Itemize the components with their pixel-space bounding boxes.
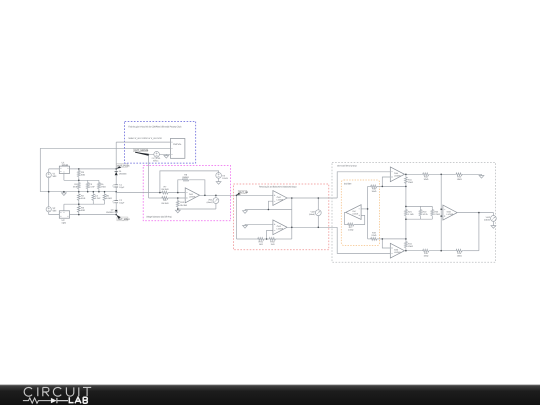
resistor R8 feedback (178, 173, 205, 195)
wire CMP pin2 feed (40, 147, 170, 149)
svg-text:twin-t notch filter w/ op-amps: twin-t notch filter w/ op-amps (337, 165, 357, 168)
svg-text:RS: RS (81, 171, 85, 174)
svg-text:OUT_SIGNAL: OUT_SIGNAL (134, 149, 149, 152)
wire top loop left vertical (39, 148, 41, 191)
annotation box red (233, 184, 328, 250)
svg-text:RG1: RG1 (259, 241, 264, 244)
svg-text:C1: C1 (119, 183, 123, 186)
svg-text:10.2k: 10.2k (423, 213, 429, 216)
svg-text:R9: R9 (164, 199, 168, 202)
svg-text:10kΩ: 10kΩ (423, 178, 428, 181)
wire OA7 plus input to spine (361, 208, 368, 210)
footer bar (0, 385, 540, 405)
svg-text:Find the gain A=Vout/Vin for C: Find the gain A=Vout/Vin for COMPlete Di… (128, 125, 182, 128)
caption gray box (337, 165, 357, 168)
svg-text:50Ω: 50Ω (81, 209, 85, 212)
svg-text:1kΩ: 1kΩ (259, 243, 263, 246)
svg-text:C2: C2 (119, 199, 123, 202)
svg-text:GEN=a: GEN=a (153, 160, 159, 163)
resistor R5 ladder (103, 192, 112, 205)
svg-text:0.1kΩ: 0.1kΩ (106, 197, 112, 200)
wire mid rail vertical (440, 174, 442, 250)
wire output tap down (478, 213, 480, 251)
svg-text:LM348: LM348 (189, 196, 196, 199)
svg-text:10µF: 10µF (119, 186, 125, 189)
svg-text:95.3kΩ: 95.3kΩ (180, 204, 187, 207)
annotation box orange (341, 180, 379, 246)
svg-text:LM348: LM348 (352, 212, 358, 215)
wire input1 riser (337, 172, 390, 198)
svg-text:95.3kΩ: 95.3kΩ (162, 202, 169, 205)
svg-text:R2: R2 (81, 194, 85, 197)
svg-text:LM348: LM348 (277, 198, 284, 201)
svg-text:50Ω: 50Ω (81, 174, 85, 177)
transformer U2 (59, 204, 79, 225)
svg-text:1N4448: 1N4448 (106, 211, 114, 214)
CircuitLab logo wordmark (23, 387, 91, 403)
svg-text:SIN: SIN (53, 210, 57, 213)
svg-text:LM348: LM348 (447, 213, 454, 216)
svg-text:10kΩ: 10kΩ (457, 255, 462, 258)
annotation box gray (332, 163, 496, 263)
resistor R15 (422, 249, 455, 257)
svg-text:R8: R8 (184, 173, 188, 176)
ground top right (479, 174, 484, 178)
op-amp OA3 (273, 220, 287, 235)
capacitor C4 ladder (92, 192, 101, 205)
svg-text:V2: V2 (53, 207, 57, 210)
svg-text:CMPVAL: CMPVAL (173, 143, 183, 146)
junction dots red box (236, 195, 319, 240)
wire row3 bottom (64, 203, 105, 205)
svg-text:Removing DC and Balanced-to-Un: Removing DC and Balanced-to-Unbalanced O… (259, 186, 296, 189)
caption magenta box (146, 215, 172, 218)
svg-text:2.2kΩ: 2.2kΩ (434, 213, 440, 216)
wire OA3 plus feed (245, 223, 273, 225)
op-amp OA5 (390, 243, 404, 258)
svg-text:V3: V3 (222, 174, 225, 177)
wire op-amp minus feed (116, 191, 161, 194)
ground mid rail (62, 192, 67, 196)
wire filter spine (367, 186, 369, 239)
voltmeter VM1 (207, 195, 219, 209)
svg-text:C3: C3 (89, 183, 93, 186)
wire OA2 minus feedback (268, 201, 273, 209)
svg-text:97kΩ: 97kΩ (371, 234, 376, 237)
wire OA2 output (287, 197, 337, 199)
caption red box (259, 186, 296, 189)
wire input rail (40, 191, 116, 193)
wire output stack top (115, 142, 117, 172)
svg-text:Select V_src=1.0mV or V_src=1m: Select V_src=1.0mV or V_src=1mV (128, 137, 162, 140)
voltmeter VM2 (309, 198, 321, 227)
annotation box magenta (143, 166, 230, 221)
resistor R19 (368, 232, 383, 241)
svg-text:RG2: RG2 (270, 241, 275, 244)
svg-text:opto: opto (62, 222, 67, 225)
diode D1 (115, 170, 128, 185)
op-amp OA6 (441, 205, 457, 220)
svg-text:XFMR: XFMR (62, 164, 69, 167)
resistor R16 (455, 249, 479, 257)
wire OA5 output (405, 250, 422, 252)
svg-text:R10: R10 (180, 201, 185, 204)
svg-text:R6: R6 (101, 183, 105, 186)
node OUT_MINUS flag (116, 215, 130, 221)
svg-text:1.5kΩ: 1.5kΩ (348, 228, 354, 231)
svg-text:10kΩ: 10kΩ (423, 255, 428, 258)
resistor R13 (455, 173, 481, 181)
voltage source V1 (46, 169, 59, 207)
wire stack mid (115, 192, 117, 201)
svg-text:LM348: LM348 (394, 175, 401, 178)
svg-text:2.2nF: 2.2nF (95, 197, 101, 200)
op-amp OA2 (273, 191, 287, 206)
wire network top rail (406, 205, 432, 207)
resistor RS2 (77, 204, 85, 214)
junction dots gray box (367, 174, 480, 252)
svg-text:RS: RS (81, 207, 85, 210)
svg-text:LM348: LM348 (394, 251, 401, 254)
wire OA4 feedback rail (382, 185, 406, 187)
svg-text:OUT_SB: OUT_SB (239, 191, 249, 194)
wire bottom output row (79, 214, 116, 216)
note text line 1 (128, 125, 182, 128)
wire input2 dropper (337, 227, 390, 253)
resistor R18 (368, 185, 383, 193)
wire spine to network (405, 186, 407, 239)
wire op-amp plus feed (149, 197, 161, 199)
ground at VSIG (164, 154, 169, 158)
logo diode (51, 398, 57, 403)
resistor R14 (405, 239, 414, 251)
svg-text:V1: V1 (53, 172, 57, 175)
svg-text:10mV: 10mV (222, 177, 228, 180)
resistor R21 (405, 206, 414, 219)
wire OA5 plus loop (382, 239, 390, 248)
resistor R2 ladder (77, 192, 86, 205)
annotation box blue (125, 121, 196, 163)
svg-text:1kΩ: 1kΩ (271, 243, 275, 246)
svg-text:3rd filter: 3rd filter (344, 182, 352, 185)
wire top output row (79, 168, 116, 170)
caption orange box (344, 182, 352, 185)
svg-text:OUT_MINU: OUT_MINU (118, 218, 130, 221)
resistor R23 (431, 206, 440, 219)
svg-text:10kΩ: 10kΩ (457, 178, 462, 181)
wire OA6 output (457, 213, 493, 216)
resistor RG1 (237, 238, 265, 247)
wire OA3 output (287, 226, 337, 228)
voltage source V3 (216, 173, 229, 181)
resistor R7 (161, 186, 185, 194)
ground at V3 (216, 180, 221, 184)
resistor R1 ladder (73, 180, 80, 191)
diode D2 (106, 209, 118, 215)
junction dots left section (48, 168, 117, 215)
resistor R12 (422, 173, 455, 181)
wire gain chain left drop (236, 195, 238, 239)
svg-text:953kΩ: 953kΩ (183, 176, 190, 179)
resistor RG2 (265, 238, 292, 247)
resistor R6 ladder (98, 180, 107, 191)
wire feedback rail upper (245, 209, 292, 211)
svg-text:SIN: SIN (53, 175, 57, 178)
svg-text:C4: C4 (95, 194, 99, 197)
comparator block U3 CMPVAL (170, 139, 185, 159)
svg-text:49.9: 49.9 (81, 197, 86, 200)
ground at R10 (175, 209, 180, 213)
wire VM1 return (178, 208, 216, 210)
wire OA3 minus tap (267, 230, 273, 239)
wire OA2 feedback drop (291, 198, 293, 239)
node OUT_SIGNAL flag (133, 149, 149, 156)
svg-text:15kΩ: 15kΩ (371, 190, 376, 193)
svg-text:10kΩ: 10kΩ (408, 245, 413, 248)
wire OA4 output (405, 173, 422, 175)
junction dots magenta box (159, 192, 217, 210)
wire network bottom rail (406, 218, 432, 220)
resistor RS1 (77, 169, 85, 180)
ground at VM3 (491, 224, 496, 228)
svg-text:Voltage Subtractor (aka Diff-A: Voltage Subtractor (aka Diff-Amp) (146, 215, 172, 218)
svg-text:10kΩ: 10kΩ (408, 181, 413, 184)
voltage source V2 (46, 207, 59, 215)
node OUT_SUB flag (237, 190, 249, 195)
wire row2 top (64, 179, 99, 181)
resistor R22 (419, 206, 429, 219)
wire bias loop (160, 171, 219, 193)
ground upper red box (243, 210, 248, 214)
resistor R9 (161, 197, 185, 205)
ground lower red box (243, 224, 248, 228)
wire VSIG drop (148, 154, 150, 198)
svg-text:1.1kΩ: 1.1kΩ (408, 213, 414, 216)
node OUT_PLUS flag (116, 163, 130, 169)
wire CMP pin1 feed (116, 141, 170, 143)
transformer U1 (59, 161, 79, 180)
svg-text:R7: R7 (164, 186, 168, 189)
op-amp OA1 (185, 188, 199, 203)
op-amp OA7 (346, 205, 361, 220)
wire R14 rail (382, 238, 406, 240)
capacitor C2 (113, 199, 125, 210)
note text line 2 (128, 137, 162, 140)
capacitor C1 (113, 183, 125, 191)
resistor R17 OA7 feedback (345, 212, 365, 231)
svg-text:R5: R5 (106, 194, 110, 197)
op-amp OA4 (390, 167, 404, 182)
resistor R11 (405, 174, 414, 186)
resistor R10 to ground (176, 198, 187, 209)
wire OA1 output (200, 194, 273, 196)
svg-text:(ideal): (ideal) (309, 213, 315, 216)
voltmeter VM3 (484, 216, 496, 225)
logo resistor zigzag (23, 398, 51, 403)
svg-text:(ideal): (ideal) (207, 201, 213, 204)
voltage source VSIG (149, 152, 171, 163)
svg-text:(ideal): (ideal) (484, 219, 490, 222)
svg-text:10µF: 10µF (119, 202, 125, 205)
wire OA4 plus loop (382, 177, 390, 186)
svg-text:2.2nF: 2.2nF (89, 186, 95, 189)
svg-text:95.3kΩ: 95.3kΩ (162, 188, 169, 191)
svg-text:47kΩ: 47kΩ (101, 186, 107, 189)
capacitor C3 ladder (86, 180, 95, 191)
svg-text:1N4448: 1N4448 (119, 172, 127, 175)
svg-text:LM348: LM348 (277, 228, 284, 231)
